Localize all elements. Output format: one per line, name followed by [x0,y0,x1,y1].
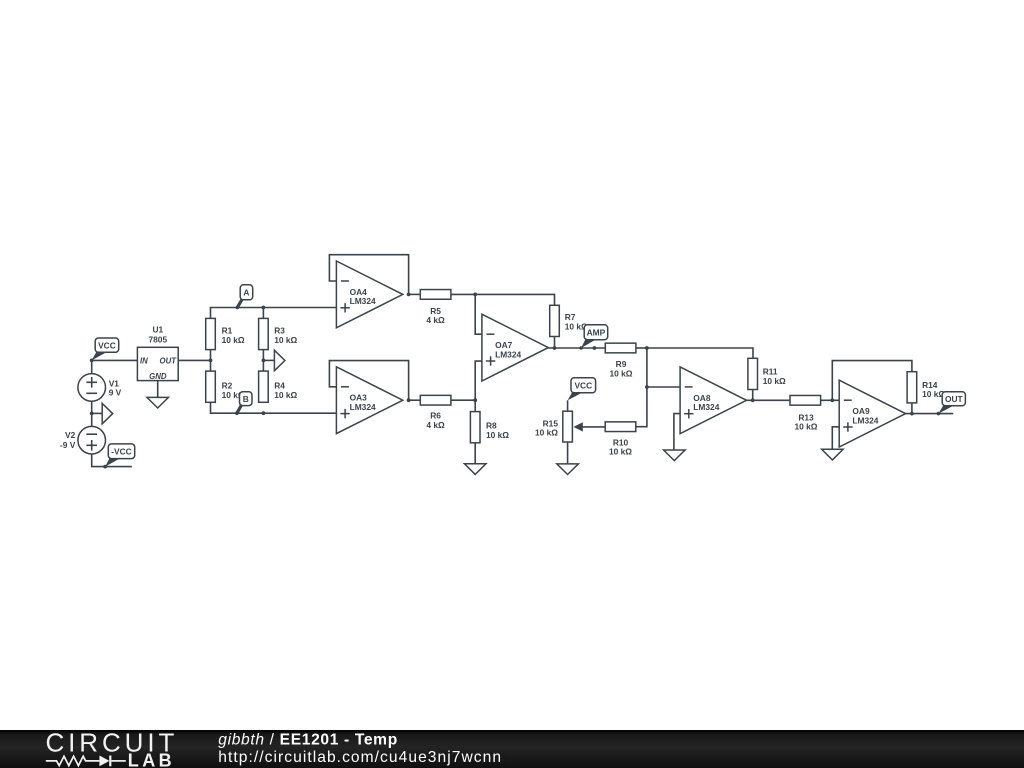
ground R8 [464,464,486,475]
resistor R7 [550,305,588,336]
wire OA8 feedback top [647,348,753,358]
wire R9 to OA8 node [636,347,647,349]
wire OA8 minus vertical [646,348,648,387]
svg-text:OUT: OUT [945,394,964,404]
svg-text:9 V: 9 V [109,388,122,398]
resistor R4 [259,371,298,402]
wire V1 to V2 [91,401,93,426]
svg-text:VCC: VCC [98,340,116,350]
voltage source V2 [60,426,106,454]
resistor R13 [790,395,821,431]
svg-text:gibbth / EE1201 - Temp: gibbth / EE1201 - Temp [218,731,398,748]
svg-text:http://circuitlab.com/cu4ue3nj: http://circuitlab.com/cu4ue3nj7wcnn [218,749,502,766]
CircuitLab logo text CIRCUIT [46,728,179,758]
node B tip [235,411,239,415]
url line text [218,749,502,766]
svg-text:A: A [243,287,249,297]
wire minus to OA8 [647,386,680,388]
ground R15 [557,464,579,475]
svg-text:10 kΩ: 10 kΩ [274,390,297,400]
svg-text:LM324: LM324 [852,415,878,425]
svg-text:10 kΩ: 10 kΩ [222,335,245,345]
svg-text:-9 V: -9 V [60,440,76,450]
wire OA7 minus branch [475,294,482,334]
wire OA3 feedback [329,361,408,401]
wire OA9 output [906,413,954,415]
node R13 junction [830,398,834,402]
resistor R6 [420,395,451,430]
wire R7 bottom stub [554,337,556,349]
node OA8 minus [645,385,649,389]
svg-text:GND: GND [149,372,167,381]
node R9 junction [645,346,649,350]
wire R14 bottom stub [911,403,913,414]
wire VCC to R15 [567,400,569,411]
svg-text:10 kΩ: 10 kΩ [609,447,632,457]
wire OA8 plus branch [674,414,680,450]
wire R8 top stub [474,400,476,411]
svg-text:10 kΩ: 10 kΩ [794,422,817,432]
potentiometer R15 [535,411,572,442]
resistor R2 [206,371,245,402]
node R1-R2 [209,359,213,363]
wire R8 bottom [474,443,476,464]
regulator U1 7805 [137,325,178,381]
node OA4 output [407,293,411,297]
svg-text:B: B [243,394,249,404]
wire OA7 plus branch [475,361,482,400]
wire R6 to R8 node [451,399,475,401]
ground U1 [147,397,169,408]
logo text LAB [128,751,175,768]
node R5-OA7 junction [473,293,477,297]
logo diode [99,756,125,767]
wire U1 GND stub [157,381,159,398]
node AMP tip [579,346,583,350]
resistor R14 [907,372,945,403]
net flag -VCC [105,444,135,467]
wire node A rail [211,308,337,319]
resistor R3 [259,318,298,349]
wire R13 to OA9 minus [821,399,840,401]
wire OA4 feedback [329,255,408,295]
wire OA4 out to R5 [409,293,421,295]
wire OA3 out to R6 [409,399,421,401]
op-amp OA7 [482,314,548,381]
svg-text:LM324: LM324 [495,349,521,359]
svg-text:4 kΩ: 4 kΩ [426,315,445,325]
node OUT tip [937,412,941,416]
svg-text:AMP: AMP [587,327,606,337]
wire V1 top [91,360,93,373]
wire VCC node to U1 IN [92,359,138,361]
node OA8 output [751,398,755,402]
node OA3 output [407,398,411,402]
wire OA7 output rail [548,347,605,349]
svg-text:10 kΩ: 10 kΩ [763,376,786,386]
svg-text:4 kΩ: 4 kΩ [426,420,445,430]
net flag OUT [938,392,965,414]
wire OA9 feedback [832,361,912,401]
node mid [593,346,597,350]
svg-text:LAB: LAB [128,751,175,768]
ground OA9 [822,449,844,460]
ground OA8 [664,450,686,461]
node R3 top [262,306,266,310]
net flag VCC 2 [568,378,596,401]
wire OA9 plus branch [832,427,839,450]
node below V1 [90,412,94,416]
resistor R11 [748,358,786,389]
node OA9 output [910,412,914,416]
net flag VCC [92,338,119,360]
resistor R1 [206,318,245,349]
title gibbth / EE1201 - Temp [218,731,398,748]
op-amp OA3 [336,367,402,434]
wire R3 top stub [262,308,264,319]
svg-text:10 kΩ: 10 kΩ [486,430,509,440]
wire down to R10 [636,387,647,427]
net flag AMP [581,325,608,348]
svg-text:7805: 7805 [148,334,167,344]
resistor R8 [470,412,509,443]
resistor R5 [420,290,451,325]
op-amp OA4 [336,261,402,328]
svg-text:10 kΩ: 10 kΩ [609,368,632,378]
svg-text:-VCC: -VCC [111,446,131,456]
svg-text:V2: V2 [65,430,76,440]
wire R15 bottom [567,442,569,464]
svg-text:LM324: LM324 [350,296,376,306]
net flag B [237,392,252,413]
node VCC attach [90,359,94,363]
svg-text:LM324: LM324 [350,402,376,412]
svg-text:IN: IN [140,356,148,365]
svg-text:10 kΩ: 10 kΩ [535,428,558,438]
svg-text:10 kΩ: 10 kΩ [274,335,297,345]
footer bar [0,730,1024,768]
wire R2 bottom to B rail [211,402,337,413]
net flag A [237,285,252,308]
voltage source V1 [78,374,122,402]
arrow marker at R3-R4 node [274,350,285,370]
svg-text:OUT: OUT [160,356,178,365]
resistor R9 [605,343,636,378]
node R4 bottom [262,411,266,415]
svg-text:VCC: VCC [574,380,592,390]
wiper arrow R15 [574,422,606,431]
wire R3-R4 junction [262,350,264,372]
arrow marker below V1 [102,403,113,423]
logo resistor zigzag [46,756,100,765]
wire stub to arrow marker [92,412,103,414]
wire U1 OUT to divider [178,359,210,361]
wire to arrow marker [263,359,274,361]
resistor R10 [605,422,636,457]
wire R11 bottom stub [752,390,754,401]
node R3-R4 [262,359,266,363]
svg-text:U1: U1 [152,325,163,335]
wire OA8 out to R13 [747,399,791,401]
wire R1-R2 junction [210,350,212,372]
wire R5 to R7 top [451,294,555,305]
wire V2 bottom [92,454,132,467]
svg-text:LM324: LM324 [693,402,719,412]
node -VCC attach [103,465,107,469]
node R7 junction [553,346,557,350]
op-amp OA8 [680,367,746,434]
op-amp OA9 [839,380,905,447]
node A tip [236,306,240,310]
node R6-R8 [473,398,477,402]
